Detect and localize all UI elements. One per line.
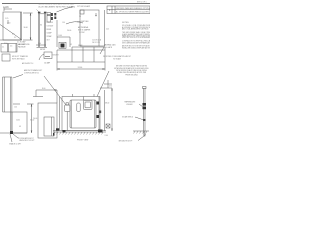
svg-text:METER: METER <box>40 49 46 51</box>
svg-text:8.00: 8.00 <box>42 88 45 90</box>
svg-text:NOTES:: NOTES: <box>122 22 130 24</box>
mast pole 2 <box>44 12 46 47</box>
notes paragraph 4 <box>122 45 155 50</box>
svg-text:2.1: 2.1 <box>2 47 4 49</box>
svg-text:8.00: 8.00 <box>59 35 62 37</box>
view K: right pole <box>143 88 145 131</box>
svg-text:LOGGER: LOGGER <box>126 104 133 106</box>
mast junction box <box>47 13 51 23</box>
tower top dim <box>13 103 20 105</box>
svg-text:24.00: 24.00 <box>67 30 71 32</box>
svg-text:68.00: 68.00 <box>105 102 109 104</box>
svg-text:2 IN RGS: 2 IN RGS <box>47 22 53 24</box>
svg-text:8.6: 8.6 <box>40 25 42 27</box>
svg-text:1.25: 1.25 <box>5 18 8 20</box>
height dimension 68.00 <box>100 87 112 89</box>
notes paragraph 1 <box>122 24 155 30</box>
door window <box>84 100 93 109</box>
svg-text:1.50: 1.50 <box>14 107 17 109</box>
svg-text:4.2: 4.2 <box>70 44 72 46</box>
anchor detail right of base <box>106 124 110 128</box>
text G: be-sure paragraph <box>114 65 148 77</box>
tower baseline <box>0 132 27 134</box>
door handle <box>77 103 80 112</box>
view A top dimension <box>4 8 12 10</box>
svg-text:3.1: 3.1 <box>14 37 16 39</box>
svg-text:FRONT VIEW: FRONT VIEW <box>77 139 89 141</box>
base lines <box>53 130 106 132</box>
pole ground leader <box>138 135 146 141</box>
feet <box>63 130 66 133</box>
svg-text:6.3: 6.3 <box>19 126 21 128</box>
view C: mast text block <box>38 2 76 8</box>
svg-text:4.00: 4.00 <box>5 7 8 9</box>
tower vertical dimension <box>31 104 33 133</box>
svg-text:PRIOR WELDING: PRIOR WELDING <box>125 74 138 76</box>
svg-text:GUY: GUY <box>47 40 50 42</box>
pole ground <box>133 130 149 132</box>
svg-text:0.75: 0.75 <box>109 86 112 88</box>
svg-text:10.00: 10.00 <box>16 120 20 122</box>
svg-text:6.2: 6.2 <box>12 34 14 36</box>
view A: top-left plan rectangle <box>3 12 22 40</box>
svg-text:SHT 1 OF 1: SHT 1 OF 1 <box>137 2 147 4</box>
svg-text:22.0: 22.0 <box>106 28 109 30</box>
svg-text:25 CFM: 25 CFM <box>79 32 85 34</box>
conduit pair left of front view <box>59 97 61 131</box>
pole bracket <box>143 103 147 106</box>
tower leader 2 <box>10 134 12 142</box>
view D: plan strip rectangle <box>57 49 72 51</box>
ground hatch <box>54 132 104 135</box>
svg-text:1.00: 1.00 <box>38 43 41 45</box>
svg-text:SOCKET: SOCKET <box>53 55 59 57</box>
svg-text:2.5: 2.5 <box>79 16 81 18</box>
svg-text:74.00: 74.00 <box>78 67 83 69</box>
view I top dim <box>36 89 57 91</box>
svg-text:SPEC SECTION 26 05 33 FOR REFE: SPEC SECTION 26 05 33 FOR REFERENCE <box>122 37 150 39</box>
view I: side box <box>38 103 57 138</box>
plan width dimension 74.00 <box>56 62 58 71</box>
svg-text:GROUND ROD 8 FT: GROUND ROD 8 FT <box>119 140 133 142</box>
svg-text:GRADE 10 DPT: GRADE 10 DPT <box>9 142 21 145</box>
view B: duct box upper <box>1 44 17 53</box>
view E arrow tick <box>95 13 97 16</box>
view E: top-right cabinet rectangle <box>80 10 99 46</box>
view E inside text <box>78 20 91 34</box>
svg-text:2.50: 2.50 <box>7 23 10 25</box>
svg-text:36.00: 36.00 <box>24 27 28 29</box>
meter socket box <box>44 52 52 59</box>
lamp box <box>65 105 71 112</box>
mast base tick <box>37 46 48 48</box>
mast base dim <box>36 44 46 46</box>
view A diagonal <box>0 25 22 40</box>
svg-text:1.50: 1.50 <box>62 22 65 24</box>
mast leader arc <box>57 7 74 12</box>
hinges <box>97 102 100 105</box>
view B: duct box lower <box>2 54 10 61</box>
mast leader arrowhead <box>71 6 73 7</box>
plan top-right leader <box>100 47 104 54</box>
svg-text:CONDUIT: CONDUIT <box>47 26 54 28</box>
view J: front view outer <box>62 97 100 131</box>
svg-text:CONTROLLER MT 52: CONTROLLER MT 52 <box>24 72 39 74</box>
notes paragraph 2 <box>122 31 157 39</box>
leader to lamp <box>44 76 66 105</box>
mast insulator stack 1 <box>51 13 53 16</box>
svg-text:32.00: 32.00 <box>30 119 34 121</box>
revision table top-right <box>107 6 150 14</box>
roof ticks <box>72 94 74 97</box>
sheet top border rule <box>2 3 150 5</box>
text F: mid-right caption <box>103 55 131 61</box>
0.75 dim upper <box>107 80 109 88</box>
plan dark box <box>61 44 65 48</box>
tower leader 1 <box>13 134 19 138</box>
notes paragraph 3 <box>122 40 153 45</box>
view H: left tower <box>2 77 4 112</box>
tower cabinet box <box>12 112 27 133</box>
front view door <box>70 100 96 128</box>
svg-text:240 V 1 PH: 240 V 1 PH <box>92 42 100 44</box>
mast insulator stack 2 <box>54 13 56 16</box>
view C dims near plan <box>56 20 58 47</box>
view E right extension <box>104 10 106 46</box>
svg-text:4.6: 4.6 <box>10 46 12 48</box>
mast pole 1 <box>38 12 40 47</box>
svg-text:2.00: 2.00 <box>105 135 108 137</box>
leader to tower <box>13 75 23 79</box>
mast crossarm <box>38 13 46 15</box>
view E inner box <box>80 10 84 14</box>
